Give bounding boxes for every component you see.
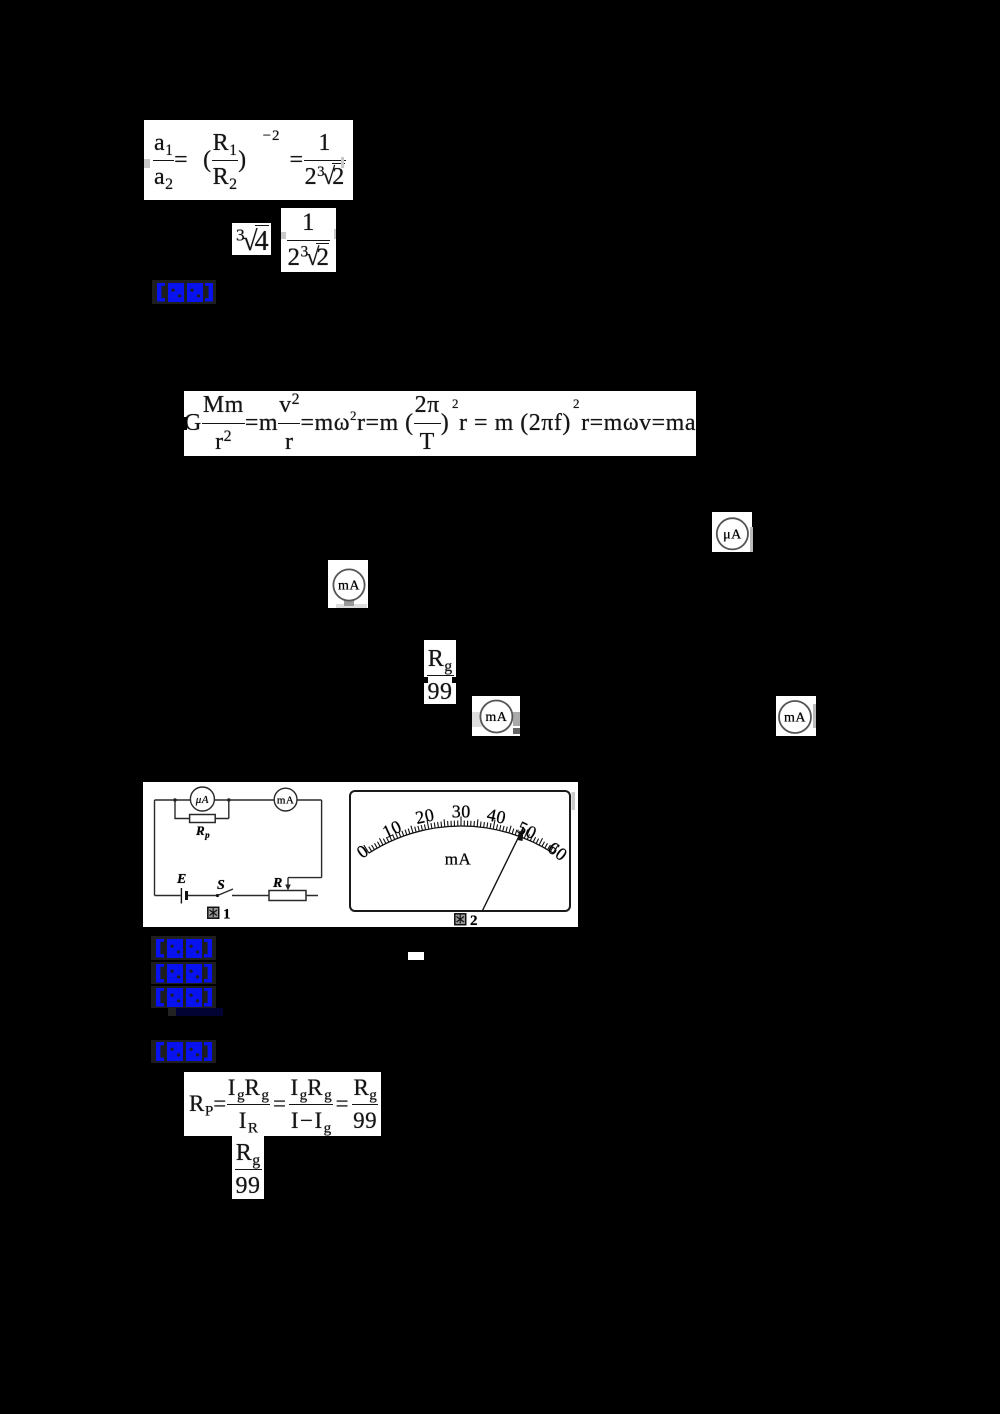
svg-text:20: 20 <box>414 804 437 828</box>
svg-text:mA: mA <box>277 795 295 807</box>
svg-text:1: 1 <box>223 907 231 923</box>
svg-text:Rp: Rp <box>195 823 210 840</box>
svg-text:60: 60 <box>544 838 571 865</box>
svg-text:0: 0 <box>353 840 373 862</box>
svg-text:mA: mA <box>445 850 472 869</box>
svg-text:40: 40 <box>485 804 508 828</box>
svg-text:R: R <box>272 876 283 891</box>
svg-text:10: 10 <box>379 816 405 842</box>
svg-text:mA: mA <box>784 711 806 726</box>
svg-text:μA: μA <box>195 794 209 806</box>
svg-text:30: 30 <box>452 801 471 821</box>
svg-text:μA: μA <box>723 528 742 543</box>
svg-text:mA: mA <box>338 579 360 594</box>
svg-text:E: E <box>176 872 187 887</box>
svg-text:S: S <box>217 878 225 893</box>
svg-text:2: 2 <box>470 913 478 927</box>
svg-text:mA: mA <box>485 710 507 725</box>
